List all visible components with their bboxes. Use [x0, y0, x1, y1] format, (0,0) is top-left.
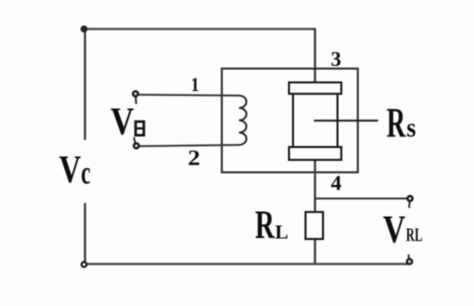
svg-text:s: s: [407, 113, 417, 143]
svg-text:V: V: [383, 208, 406, 251]
svg-text:L: L: [275, 222, 288, 244]
svg-text:V: V: [111, 100, 135, 143]
svg-text:4: 4: [331, 171, 342, 195]
svg-text:V: V: [59, 148, 81, 191]
svg-text:1: 1: [191, 74, 200, 96]
svg-text:3: 3: [331, 47, 342, 71]
svg-text:2: 2: [188, 145, 201, 170]
svg-text:R: R: [387, 101, 406, 147]
svg-text:RL: RL: [406, 225, 423, 246]
svg-text:c: c: [81, 156, 91, 192]
svg-text:R: R: [255, 202, 275, 247]
